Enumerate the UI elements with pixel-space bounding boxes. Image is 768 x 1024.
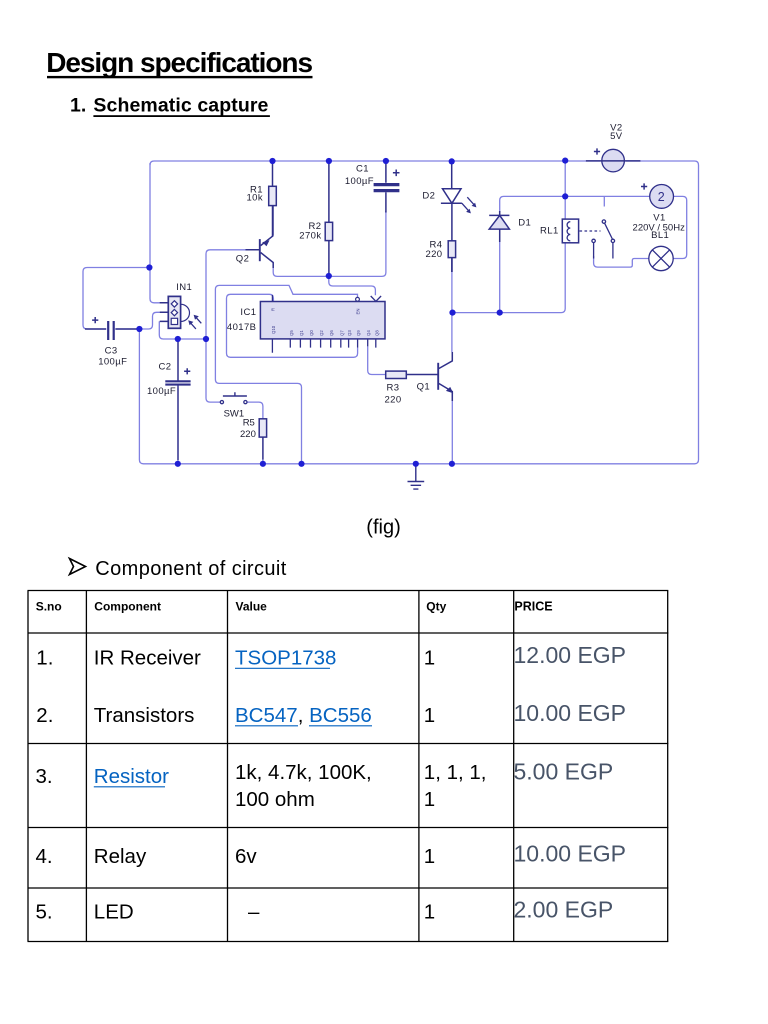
svg-text:Transistors: Transistors bbox=[94, 704, 195, 727]
svg-text:Value: Value bbox=[236, 600, 268, 614]
svg-text:6v: 6v bbox=[235, 845, 257, 868]
svg-text:1.: 1. bbox=[36, 647, 53, 670]
svg-text:BC547, BC556: BC547, BC556 bbox=[235, 704, 372, 727]
svg-text:2.: 2. bbox=[36, 704, 53, 727]
svg-text:220: 220 bbox=[384, 394, 401, 405]
svg-text:270k: 270k bbox=[299, 231, 321, 242]
svg-text:5V: 5V bbox=[610, 131, 623, 142]
svg-text:100µF: 100µF bbox=[345, 176, 374, 187]
svg-text:1k, 4.7k, 100K,: 1k, 4.7k, 100K, bbox=[235, 761, 372, 784]
svg-text:4.: 4. bbox=[36, 845, 53, 868]
svg-text:1: 1 bbox=[424, 704, 435, 727]
svg-text:1: 1 bbox=[424, 845, 435, 868]
svg-text:S.no: S.no bbox=[36, 600, 62, 614]
svg-text:4017B: 4017B bbox=[227, 322, 256, 333]
svg-text:C1: C1 bbox=[356, 163, 369, 174]
svg-text:100µF: 100µF bbox=[147, 386, 176, 397]
svg-text:C3: C3 bbox=[105, 346, 118, 357]
svg-text:220: 220 bbox=[425, 249, 442, 260]
svg-text:V1: V1 bbox=[653, 212, 665, 223]
svg-text:Schematic capture: Schematic capture bbox=[93, 95, 268, 117]
svg-text:R3: R3 bbox=[387, 383, 400, 394]
svg-text:LED: LED bbox=[94, 901, 134, 924]
svg-text:Qty: Qty bbox=[426, 600, 446, 614]
svg-text:TSOP1738: TSOP1738 bbox=[235, 647, 336, 670]
svg-text:220: 220 bbox=[240, 429, 256, 440]
svg-text:1.: 1. bbox=[70, 95, 86, 117]
svg-text:Relay: Relay bbox=[94, 845, 147, 868]
svg-text:Q5: Q5 bbox=[289, 330, 294, 336]
svg-text:Component: Component bbox=[94, 600, 161, 614]
svg-text:Q4: Q4 bbox=[366, 330, 371, 336]
svg-text:1: 1 bbox=[424, 647, 435, 670]
svg-text:2.00 EGP: 2.00 EGP bbox=[514, 897, 614, 923]
svg-text:–: – bbox=[248, 901, 260, 924]
svg-text:IC1: IC1 bbox=[240, 307, 256, 318]
svg-text:IR Receiver: IR Receiver bbox=[94, 647, 201, 670]
svg-text:SW1: SW1 bbox=[224, 409, 245, 420]
svg-text:C2: C2 bbox=[159, 361, 172, 372]
svg-text:10.00 EGP: 10.00 EGP bbox=[514, 841, 627, 867]
svg-text:(fig): (fig) bbox=[366, 517, 400, 539]
svg-text:EN: EN bbox=[356, 309, 361, 315]
svg-text:IN1: IN1 bbox=[176, 282, 192, 293]
svg-text:Q1: Q1 bbox=[299, 330, 304, 336]
svg-text:RL1: RL1 bbox=[540, 226, 559, 237]
svg-text:Q7: Q7 bbox=[339, 330, 344, 336]
svg-text:Q3: Q3 bbox=[347, 330, 352, 336]
svg-text:R5: R5 bbox=[243, 418, 255, 429]
svg-text:100µF: 100µF bbox=[98, 357, 127, 368]
svg-text:D2: D2 bbox=[422, 190, 435, 201]
svg-text:Q9: Q9 bbox=[356, 330, 361, 336]
svg-text:Q8: Q8 bbox=[374, 330, 379, 336]
svg-text:Q10: Q10 bbox=[271, 325, 276, 334]
svg-text:100 ohm: 100 ohm bbox=[235, 788, 315, 811]
svg-text:BL1: BL1 bbox=[651, 230, 669, 241]
svg-text:1: 1 bbox=[424, 788, 435, 811]
svg-text:D1: D1 bbox=[518, 217, 531, 228]
svg-text:1: 1 bbox=[424, 901, 435, 924]
svg-text:R: R bbox=[271, 308, 276, 311]
svg-text:Q2: Q2 bbox=[236, 253, 249, 264]
svg-text:Q6: Q6 bbox=[329, 330, 334, 336]
svg-text:Component of circuit: Component of circuit bbox=[95, 558, 286, 580]
svg-text:2: 2 bbox=[658, 190, 665, 204]
svg-text:10.00 EGP: 10.00 EGP bbox=[514, 700, 627, 726]
svg-text:10k: 10k bbox=[246, 192, 263, 203]
svg-text:12.00 EGP: 12.00 EGP bbox=[514, 642, 627, 668]
svg-text:Design specifications: Design specifications bbox=[46, 47, 312, 78]
svg-text:PRICE: PRICE bbox=[514, 600, 552, 614]
svg-text:5.00 EGP: 5.00 EGP bbox=[514, 759, 614, 785]
svg-text:3.: 3. bbox=[36, 765, 53, 788]
svg-text:Q2: Q2 bbox=[319, 330, 324, 336]
svg-text:5.: 5. bbox=[36, 901, 53, 924]
svg-text:1, 1, 1,: 1, 1, 1, bbox=[424, 761, 487, 784]
svg-text:Q1: Q1 bbox=[417, 382, 430, 393]
svg-text:Resistor: Resistor bbox=[94, 765, 169, 788]
svg-text:Q0: Q0 bbox=[309, 330, 314, 336]
